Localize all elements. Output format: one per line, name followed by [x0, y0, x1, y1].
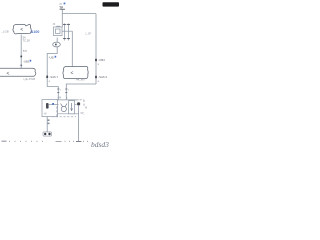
- svg-text:J_SP: J_SP: [85, 32, 91, 36]
- svg-text:TC.28: TC.28: [23, 38, 31, 42]
- svg-text:A4_X87: A4_X87: [76, 79, 86, 82]
- svg-text:M: M: [85, 106, 87, 110]
- svg-text:<: <: [20, 27, 23, 33]
- svg-text:-UB4: -UB4: [98, 58, 105, 62]
- svg-text:(+)L-XY28: (+)L-XY28: [24, 78, 36, 81]
- svg-text:A100: A100: [31, 30, 40, 34]
- svg-text:bdsd3: bdsd3: [91, 140, 109, 149]
- svg-text:SP_: SP_: [80, 112, 85, 115]
- svg-text:5.5: 5.5: [23, 49, 27, 53]
- svg-text:-UB1: -UB1: [23, 59, 30, 63]
- svg-text:<: <: [71, 71, 74, 77]
- svg-text:<: <: [7, 71, 10, 77]
- svg-text:-SA6.3: -SA6.3: [98, 75, 107, 79]
- svg-text:-UB: -UB: [49, 55, 54, 59]
- svg-text:-SA6.7: -SA6.7: [49, 75, 58, 79]
- svg-text:_LGB: _LGB: [1, 30, 9, 34]
- svg-text:-M4: -M4: [57, 96, 62, 99]
